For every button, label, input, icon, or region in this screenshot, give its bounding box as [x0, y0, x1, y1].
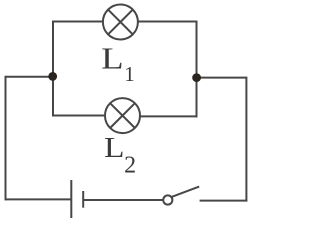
lamp L1	[103, 5, 138, 40]
wire right outer vertical	[245, 77, 247, 202]
wire left node horizontal	[6, 76, 54, 78]
wire L2 branch right segment	[140, 115, 198, 117]
wire switch fixed contact	[200, 200, 248, 202]
switch pivot circle	[163, 195, 172, 204]
battery long plate (+)	[70, 180, 72, 218]
switch lever	[172, 187, 199, 197]
node junction dot right	[192, 73, 201, 82]
wire left inner vertical	[52, 21, 54, 117]
svg-text:L: L	[104, 132, 125, 164]
svg-text:L: L	[101, 41, 124, 76]
lamp L2	[105, 98, 140, 133]
svg-text:1: 1	[124, 62, 135, 86]
wire right node horizontal	[197, 77, 247, 79]
svg-text:2: 2	[124, 152, 136, 178]
node junction dot left	[48, 72, 57, 81]
wire top branch left segment	[52, 21, 104, 23]
wire right inner vertical	[196, 21, 198, 118]
wire left outer vertical	[5, 76, 7, 201]
wire top branch right segment	[138, 21, 198, 23]
wire bottom left segment	[5, 198, 72, 200]
wire L2 branch left segment	[52, 115, 106, 117]
battery short plate (-)	[82, 191, 84, 208]
wire battery to switch	[83, 199, 162, 201]
